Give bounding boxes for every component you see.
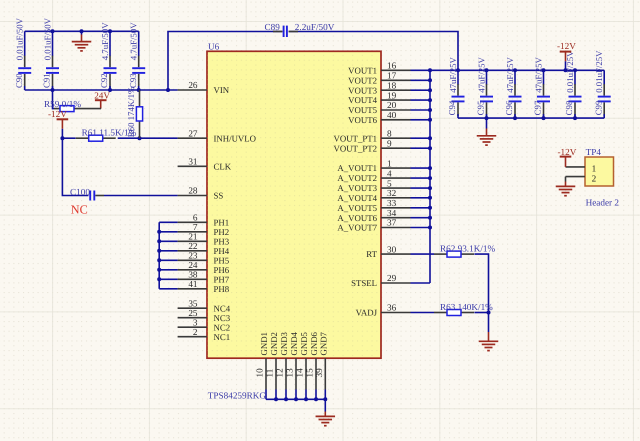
svg-text:R62 93.1K/1%: R62 93.1K/1% bbox=[440, 243, 495, 253]
wire RT to R62 bbox=[411, 253, 435, 255]
wire R63 to ground node bbox=[474, 312, 488, 314]
svg-text:NC4: NC4 bbox=[214, 303, 231, 313]
svg-text:11: 11 bbox=[265, 368, 275, 377]
svg-text:PH6: PH6 bbox=[214, 265, 230, 275]
pin 40 VOUT6 (right) bbox=[348, 110, 410, 125]
svg-text:RT: RT bbox=[366, 249, 377, 259]
svg-text:0.01uF/50V: 0.01uF/50V bbox=[42, 17, 52, 60]
resistor R60 174K/1% bbox=[126, 86, 143, 138]
svg-text:C92: C92 bbox=[99, 73, 109, 88]
wire pin 40 to -12V bus bbox=[411, 119, 431, 121]
svg-text:27: 27 bbox=[188, 128, 198, 138]
svg-text:C90: C90 bbox=[14, 73, 24, 88]
wire C89 right to -12V rail bbox=[289, 32, 458, 71]
power port -12V right bbox=[557, 41, 576, 70]
svg-text:A_VOUT3: A_VOUT3 bbox=[337, 183, 377, 193]
pin 35 NC4 (left) bbox=[178, 298, 231, 313]
svg-text:A_VOUT6: A_VOUT6 bbox=[337, 213, 377, 223]
connector TP4 Header 2 bbox=[585, 147, 619, 208]
wire VADJ to R63 bbox=[411, 312, 435, 314]
wire -12V rail to output caps bbox=[430, 69, 604, 71]
pin 25 NC3 (left) bbox=[178, 308, 231, 323]
junction dots on INH/UVLO wire bbox=[60, 136, 141, 140]
svg-text:2: 2 bbox=[193, 327, 198, 337]
pin 20 VOUT5 (right) bbox=[348, 100, 410, 115]
svg-text:24: 24 bbox=[188, 260, 198, 270]
capacitor C93 4.7uF/50V bbox=[128, 22, 145, 90]
svg-text:24V: 24V bbox=[94, 90, 110, 100]
wire pin 5 to -12V bus bbox=[411, 187, 431, 189]
part number label TPS84259RKG bbox=[208, 391, 267, 401]
wire PH6 to bus bbox=[159, 269, 177, 271]
junction dots cap ground rail bbox=[485, 116, 578, 120]
wire pin 37 to -12V bus bbox=[411, 227, 431, 229]
svg-text:U6: U6 bbox=[208, 42, 220, 52]
svg-text:VOUT1: VOUT1 bbox=[348, 65, 377, 75]
svg-text:VOUT5: VOUT5 bbox=[348, 105, 377, 115]
svg-text:VOUT2: VOUT2 bbox=[348, 75, 377, 85]
svg-text:GND5: GND5 bbox=[299, 331, 309, 355]
capacitor C97 47uF/25V bbox=[533, 56, 550, 118]
wire pin 34 to -12V bus bbox=[411, 217, 431, 219]
svg-text:-12V: -12V bbox=[557, 41, 576, 51]
pin 10 GND1 (bottom) bbox=[255, 332, 269, 399]
junction dots -12V bus bbox=[428, 68, 432, 229]
wire pin 17 to -12V bus bbox=[411, 79, 431, 81]
svg-text:40: 40 bbox=[387, 110, 397, 120]
svg-text:36: 36 bbox=[387, 303, 397, 313]
pin 17 VOUT2 (right) bbox=[348, 71, 410, 86]
pin 19 VOUT4 (right) bbox=[348, 90, 410, 105]
svg-text:C96: C96 bbox=[504, 100, 514, 115]
wire pin 19 to -12V bus bbox=[411, 99, 431, 101]
pin 16 VOUT1 (right) bbox=[348, 61, 410, 76]
junction dots GND bus bbox=[274, 397, 327, 401]
wire pin 20 to -12V bus bbox=[411, 109, 431, 111]
resistor R59 0/1% bbox=[44, 99, 101, 111]
svg-text:A_VOUT1: A_VOUT1 bbox=[337, 163, 377, 173]
resistor R62 93.1K/1% bbox=[434, 243, 495, 257]
svg-text:C94: C94 bbox=[447, 100, 457, 115]
svg-text:32: 32 bbox=[387, 188, 397, 198]
svg-text:19: 19 bbox=[387, 90, 397, 100]
power port 24V bbox=[94, 90, 110, 108]
svg-text:C100: C100 bbox=[70, 187, 90, 197]
capacitor C89 2.2uF/50V bbox=[265, 22, 335, 37]
svg-text:INH/UVLO: INH/UVLO bbox=[214, 133, 257, 143]
svg-text:41: 41 bbox=[188, 279, 198, 289]
wire VIN rail (24V input) bbox=[25, 89, 178, 91]
svg-text:22: 22 bbox=[188, 241, 198, 251]
wire R62 to ground node bbox=[474, 254, 488, 312]
junction dots on VIN rail bbox=[51, 88, 171, 92]
svg-text:PH8: PH8 bbox=[214, 284, 230, 294]
resistor R63 140K/1% bbox=[434, 302, 493, 316]
pin 1 TP4 stub bbox=[566, 166, 586, 168]
ground symbol top-left bbox=[72, 31, 92, 51]
svg-text:47uF/25V: 47uF/25V bbox=[533, 56, 543, 92]
svg-text:37: 37 bbox=[387, 218, 397, 228]
svg-text:26: 26 bbox=[188, 80, 198, 90]
svg-text:R63 140K/1%: R63 140K/1% bbox=[440, 302, 493, 312]
pin 2 TP4 stub bbox=[566, 177, 586, 182]
svg-text:VOUT3: VOUT3 bbox=[348, 85, 377, 95]
pin 39 GND7 (bottom) bbox=[314, 331, 328, 399]
svg-text:9: 9 bbox=[387, 138, 392, 148]
svg-text:PH5: PH5 bbox=[214, 255, 230, 265]
capacitor C100 bbox=[70, 187, 104, 201]
svg-text:38: 38 bbox=[188, 270, 198, 280]
svg-text:C99: C99 bbox=[593, 100, 603, 115]
pin 5 A_VOUT3 (right) bbox=[337, 178, 410, 193]
svg-text:C98: C98 bbox=[564, 100, 574, 115]
pin 15 GND6 (bottom) bbox=[305, 331, 319, 399]
svg-text:20: 20 bbox=[387, 100, 397, 110]
svg-text:17: 17 bbox=[387, 71, 397, 81]
capacitor C96 47uF/25V bbox=[504, 56, 521, 118]
svg-text:A_VOUT5: A_VOUT5 bbox=[337, 203, 377, 213]
pin 38 PH7 (left) bbox=[178, 270, 230, 285]
pin 31 CLK (left) bbox=[178, 157, 232, 172]
svg-text:29: 29 bbox=[387, 273, 397, 283]
ground symbol at TP4 bbox=[556, 182, 576, 196]
pin 6 PH1 (left) bbox=[178, 213, 230, 228]
svg-text:2.2uF/50V: 2.2uF/50V bbox=[295, 22, 335, 32]
ground symbol below C95 bbox=[477, 118, 497, 145]
svg-text:GND2: GND2 bbox=[269, 332, 279, 355]
svg-text:A_VOUT4: A_VOUT4 bbox=[337, 193, 377, 203]
wire -12V down to C100 bbox=[62, 138, 88, 195]
svg-text:35: 35 bbox=[188, 298, 198, 308]
wire pin 4 to -12V bus bbox=[411, 177, 431, 179]
svg-text:12: 12 bbox=[275, 368, 285, 378]
pin 28 SS (left) bbox=[178, 186, 224, 201]
pin 26 VIN (left) bbox=[178, 80, 230, 95]
svg-text:VIN: VIN bbox=[214, 85, 230, 95]
svg-text:R59 0/1%: R59 0/1% bbox=[44, 99, 81, 109]
pin 32 A_VOUT4 (right) bbox=[337, 188, 410, 203]
svg-text:NC3: NC3 bbox=[214, 313, 231, 323]
pin 2 NC1 (left) bbox=[178, 327, 231, 342]
wire PH bus vertical bbox=[158, 222, 160, 288]
capacitor C98 0.01uF/25V bbox=[564, 50, 581, 118]
svg-text:28: 28 bbox=[188, 186, 198, 196]
svg-text:-12V: -12V bbox=[558, 147, 577, 157]
pin 1 A_VOUT1 (right) bbox=[337, 158, 410, 173]
pin 8 VOUT_PT1 (right) bbox=[334, 128, 411, 143]
pin 3 NC2 (left) bbox=[178, 317, 231, 332]
junction dot RT/VADJ ground node bbox=[487, 311, 491, 315]
capacitor C92 4.7uF/50V bbox=[99, 22, 116, 90]
pin 11 GND2 (bottom) bbox=[265, 332, 279, 399]
svg-text:A_VOUT7: A_VOUT7 bbox=[337, 223, 377, 233]
wire pin 9 to -12V bus bbox=[411, 147, 431, 149]
pin 36 VADJ (right) bbox=[356, 303, 411, 318]
junction dots -12V cap rail bbox=[456, 68, 577, 72]
svg-text:7: 7 bbox=[193, 222, 198, 232]
pin 23 PH5 (left) bbox=[178, 251, 230, 266]
svg-text:21: 21 bbox=[188, 232, 198, 242]
wire PH8 to bus bbox=[159, 288, 177, 290]
IC U6 TPS84259RKG power module body bbox=[207, 42, 381, 359]
svg-text:Header 2: Header 2 bbox=[586, 198, 620, 208]
svg-text:0.01uF/50V: 0.01uF/50V bbox=[15, 17, 25, 60]
svg-text:GND4: GND4 bbox=[289, 331, 299, 355]
wire pin 33 to -12V bus bbox=[411, 207, 431, 209]
svg-text:25: 25 bbox=[188, 308, 198, 318]
svg-text:30: 30 bbox=[387, 244, 397, 254]
wire VIN to C89 left bbox=[168, 32, 282, 91]
svg-text:R60 174K/1%: R60 174K/1% bbox=[126, 86, 136, 137]
svg-text:NC1: NC1 bbox=[214, 332, 231, 342]
svg-text:TPS84259RKG: TPS84259RKG bbox=[208, 391, 267, 401]
pin 22 PH4 (left) bbox=[178, 241, 230, 256]
svg-text:C95: C95 bbox=[476, 100, 486, 115]
wire PH2 to bus bbox=[159, 231, 177, 233]
capacitor C99 0.01uF/25V bbox=[593, 50, 610, 118]
ground symbol below U6 bbox=[316, 399, 336, 425]
svg-text:PH2: PH2 bbox=[214, 227, 230, 237]
svg-text:23: 23 bbox=[188, 251, 198, 261]
pin 30 RT (right) bbox=[366, 244, 410, 259]
svg-text:PH7: PH7 bbox=[214, 274, 230, 284]
ground symbol below R62/R63 bbox=[479, 313, 499, 351]
pin 41 PH8 (left) bbox=[178, 279, 230, 294]
pin 34 A_VOUT6 (right) bbox=[337, 208, 410, 223]
pin 13 GND4 (bottom) bbox=[285, 331, 299, 399]
svg-text:3: 3 bbox=[193, 317, 198, 327]
svg-text:SS: SS bbox=[214, 191, 224, 201]
pin 4 A_VOUT2 (right) bbox=[337, 168, 410, 183]
wire pin 18 to -12V bus bbox=[411, 89, 431, 91]
wire GND bus bottom bbox=[266, 398, 325, 400]
pin 14 GND5 (bottom) bbox=[295, 331, 309, 399]
svg-text:C91: C91 bbox=[42, 73, 52, 88]
wire PH4 to bus bbox=[159, 250, 177, 252]
resistor R61 11.5K/1% bbox=[76, 127, 137, 141]
svg-text:4.7uF/50V: 4.7uF/50V bbox=[100, 22, 110, 61]
svg-text:GND3: GND3 bbox=[279, 331, 289, 355]
pin 7 PH2 (left) bbox=[178, 222, 230, 237]
wire C100 to pin 28 SS bbox=[104, 195, 178, 197]
wire pin 1 to -12V bus bbox=[411, 167, 431, 169]
net label NC bbox=[71, 203, 88, 217]
svg-text:13: 13 bbox=[285, 368, 295, 378]
svg-text:NC2: NC2 bbox=[214, 322, 231, 332]
svg-text:PH4: PH4 bbox=[214, 246, 230, 256]
svg-text:PH1: PH1 bbox=[214, 217, 230, 227]
svg-text:0.01uF/25V: 0.01uF/25V bbox=[594, 50, 604, 93]
svg-text:NC: NC bbox=[71, 203, 88, 217]
pin 9 VOUT_PT2 (right) bbox=[334, 138, 411, 153]
svg-text:VOUT_PT2: VOUT_PT2 bbox=[334, 143, 378, 153]
svg-text:5: 5 bbox=[387, 178, 392, 188]
svg-text:1: 1 bbox=[387, 158, 392, 168]
svg-text:18: 18 bbox=[387, 80, 397, 90]
svg-text:14: 14 bbox=[295, 368, 305, 378]
svg-text:VOUT_PT1: VOUT_PT1 bbox=[334, 133, 378, 143]
wire PH3 to bus bbox=[159, 240, 177, 242]
power port -12V at TP4 bbox=[558, 147, 577, 167]
junction dots PH bus bbox=[157, 230, 161, 281]
pin 21 PH3 (left) bbox=[178, 232, 230, 247]
svg-text:4: 4 bbox=[387, 168, 392, 178]
svg-text:31: 31 bbox=[188, 157, 198, 167]
svg-text:C93: C93 bbox=[128, 73, 138, 88]
svg-text:TP4: TP4 bbox=[586, 147, 602, 157]
wire pin 32 to -12V bus bbox=[411, 197, 431, 199]
svg-text:GND1: GND1 bbox=[259, 332, 269, 355]
svg-text:39: 39 bbox=[314, 368, 324, 378]
wire -12V output bus vertical bbox=[429, 70, 431, 283]
wire PH5 to bus bbox=[159, 259, 177, 261]
svg-text:16: 16 bbox=[387, 61, 397, 71]
svg-text:4.7uF/50V: 4.7uF/50V bbox=[129, 22, 139, 61]
capacitor C94 47uF/25V bbox=[447, 56, 464, 118]
svg-text:47uF/25V: 47uF/25V bbox=[476, 56, 486, 92]
svg-text:VOUT4: VOUT4 bbox=[348, 95, 377, 105]
pin 33 A_VOUT5 (right) bbox=[337, 198, 410, 213]
svg-text:10: 10 bbox=[255, 368, 265, 378]
wire R61 to pin 27 bbox=[118, 137, 178, 139]
wire STSEL to bus riser bbox=[411, 282, 431, 284]
pin 37 A_VOUT7 (right) bbox=[337, 218, 410, 233]
svg-text:33: 33 bbox=[387, 198, 397, 208]
svg-text:8: 8 bbox=[387, 128, 392, 138]
pin 24 PH6 (left) bbox=[178, 260, 230, 275]
pin 27 INH/UVLO (left) bbox=[178, 128, 256, 143]
wire C91 node down to R59 bbox=[53, 90, 55, 109]
power port -12V left bbox=[48, 109, 68, 138]
svg-text:2: 2 bbox=[592, 173, 597, 183]
capacitor C90 0.01uF/50V bbox=[14, 17, 31, 90]
wire -12V node to R61 bbox=[62, 137, 75, 139]
wire output caps ground rail bbox=[458, 117, 604, 119]
svg-text:C89: C89 bbox=[265, 22, 281, 32]
svg-text:GND7: GND7 bbox=[318, 331, 328, 355]
wire PH7 to bus bbox=[159, 278, 177, 280]
svg-text:STSEL: STSEL bbox=[351, 278, 377, 288]
svg-text:A_VOUT2: A_VOUT2 bbox=[337, 173, 377, 183]
svg-text:47uF/25V: 47uF/25V bbox=[505, 56, 515, 92]
svg-text:6: 6 bbox=[193, 213, 198, 223]
pin 12 GND3 (bottom) bbox=[275, 331, 289, 399]
capacitor C91 0.01uF/50V bbox=[42, 17, 59, 90]
svg-text:CLK: CLK bbox=[214, 161, 232, 171]
svg-text:PH3: PH3 bbox=[214, 236, 230, 246]
pin 18 VOUT3 (right) bbox=[348, 80, 410, 95]
capacitor C95 47uF/25V bbox=[476, 56, 493, 118]
wire pin 16 to -12V bus bbox=[411, 69, 431, 71]
svg-text:1: 1 bbox=[592, 163, 597, 173]
svg-text:34: 34 bbox=[387, 208, 397, 218]
wire GND rail top-left bbox=[25, 30, 139, 32]
svg-text:VADJ: VADJ bbox=[356, 308, 378, 318]
svg-text:C97: C97 bbox=[533, 100, 543, 115]
svg-text:VOUT6: VOUT6 bbox=[348, 115, 377, 125]
svg-text:-12V: -12V bbox=[48, 109, 67, 119]
junction dots on top-left GND rail bbox=[51, 29, 113, 33]
pin 29 STSEL (right) bbox=[351, 273, 410, 288]
wire pin 8 to -12V bus bbox=[411, 137, 431, 139]
svg-text:47uF/25V: 47uF/25V bbox=[448, 56, 458, 92]
wire PH1 to bus bbox=[159, 221, 177, 223]
